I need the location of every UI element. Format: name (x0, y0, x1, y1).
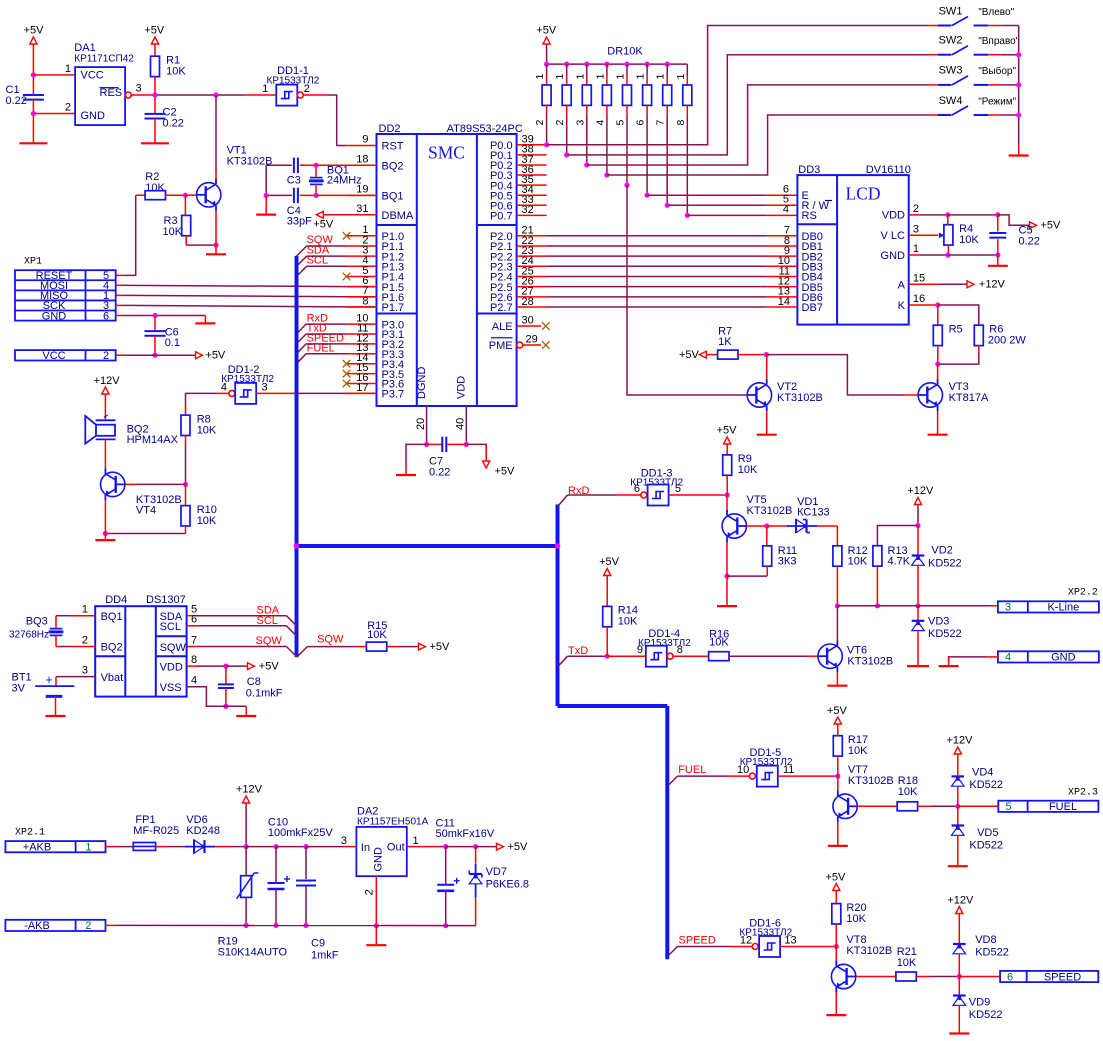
node C5 bottom (995, 252, 1000, 257)
svg-text:2: 2 (65, 102, 71, 114)
svg-text:K: K (898, 300, 906, 312)
svg-text:FUEL: FUEL (1049, 801, 1077, 813)
svg-text:+5V: +5V (679, 349, 700, 361)
wire DA1 pin 2 (33, 113, 75, 115)
svg-text:KD522: KD522 (969, 1009, 1003, 1021)
node R13 bottom (875, 603, 880, 608)
svg-text:+5V: +5V (24, 25, 45, 37)
svg-text:+12V: +12V (947, 735, 974, 747)
resistor R20 (832, 904, 841, 924)
wire top rail 1 (246, 846, 276, 848)
svg-text:P6KE6.8: P6KE6.8 (486, 878, 529, 890)
svg-text:11: 11 (783, 764, 794, 776)
svg-text:КР1157ЕН501А: КР1157ЕН501А (357, 817, 429, 828)
svg-text:1: 1 (413, 835, 419, 847)
node R19 top (244, 844, 249, 849)
resistor R17 (833, 736, 842, 756)
pin 37 P0.2 (517, 164, 547, 166)
svg-text:DS1307: DS1307 (146, 594, 186, 606)
svg-text:32768Hz: 32768Hz (9, 630, 49, 641)
wire to connector (958, 805, 999, 807)
svg-text:10K: 10K (738, 464, 758, 476)
svg-text:3: 3 (913, 224, 919, 236)
wire SPEED from bus (669, 947, 678, 956)
node VT5/R11/VD1 (764, 523, 769, 528)
svg-text:29: 29 (526, 333, 538, 345)
svg-text:VCC: VCC (42, 350, 65, 362)
svg-text:3: 3 (1005, 602, 1011, 614)
resistor DR10K element 5 (624, 62, 629, 67)
svg-text:SQW: SQW (256, 635, 283, 647)
wire DA2 gnd (375, 926, 377, 946)
svg-text:1: 1 (85, 842, 91, 854)
pin 40 VDD (465, 406, 467, 444)
node VT5 emitter/R11 (724, 574, 729, 579)
svg-text:10K: 10K (959, 234, 979, 246)
wire R16 to VT6 base (729, 655, 808, 657)
svg-text:RS: RS (802, 210, 817, 222)
svg-text:+5V: +5V (599, 556, 620, 568)
svg-text:КР1171СП42: КР1171СП42 (74, 54, 134, 65)
svg-text:+5V: +5V (717, 425, 738, 437)
svg-text:200 2W: 200 2W (988, 334, 1027, 346)
svg-text:1: 1 (913, 243, 919, 255)
svg-text:4: 4 (1005, 652, 1011, 664)
svg-text:+5V: +5V (430, 641, 451, 653)
svg-text:VCC: VCC (81, 69, 104, 81)
ground (VT7) (828, 845, 848, 847)
svg-text:GND: GND (42, 310, 67, 322)
svg-text:BQ1: BQ1 (101, 611, 123, 623)
pin 1 GND (909, 254, 920, 256)
svg-text:RES: RES (100, 87, 123, 99)
svg-text:4: 4 (221, 382, 227, 394)
wire VT5 collector (726, 495, 728, 512)
wire C7 to ground (406, 444, 427, 466)
svg-text:+5V: +5V (1041, 220, 1062, 232)
svg-text:+5V: +5V (495, 466, 516, 478)
svg-text:20: 20 (415, 418, 427, 430)
pin 18 BQ2 (347, 164, 377, 166)
pin 9 DB2 wire (547, 255, 767, 257)
svg-text:SPEED: SPEED (1044, 971, 1081, 983)
svg-text:8: 8 (677, 644, 683, 656)
ground (VT1) (206, 253, 226, 255)
svg-text:4.7K: 4.7K (888, 556, 911, 568)
wire DR4 to P0.3 (606, 115, 608, 175)
wire DD1-5 out (778, 775, 838, 777)
svg-text:K-Line: K-Line (1047, 602, 1079, 614)
wire FUEL from bus (669, 776, 678, 785)
wire DR7 to P0.6 (666, 115, 668, 206)
svg-text:1mkF: 1mkF (311, 950, 339, 962)
wire C1 to ground (32, 114, 34, 144)
no-connect P1.0 (343, 232, 351, 240)
svg-text:7: 7 (655, 120, 667, 126)
svg-text:0.1mkF: 0.1mkF (246, 688, 283, 700)
svg-text:SW1: SW1 (939, 5, 963, 17)
svg-text:10K: 10K (367, 629, 387, 641)
node BQ1 top (313, 163, 318, 168)
node C11 bottom (443, 923, 448, 928)
wire VT2 emitter (766, 411, 768, 435)
svg-text:SQW: SQW (317, 633, 344, 645)
wire to R16 (673, 655, 709, 657)
resistor DR10K element 1 (544, 62, 549, 67)
svg-text:2: 2 (82, 634, 88, 646)
svg-text:KT817A: KT817A (949, 392, 989, 404)
ground (C8) (236, 715, 256, 717)
svg-text:1: 1 (65, 63, 71, 75)
wire SCL tap (307, 265, 347, 267)
node C9 top (303, 844, 308, 849)
svg-text:12: 12 (740, 934, 752, 946)
svg-text:GND: GND (881, 250, 906, 262)
svg-text:1: 1 (262, 83, 268, 95)
svg-text:33pF: 33pF (287, 216, 312, 228)
svg-text:10K: 10K (898, 786, 918, 798)
node SW2 rail (1016, 52, 1021, 57)
svg-text:DR10K: DR10K (607, 45, 643, 57)
ground (VT8) (826, 1014, 846, 1016)
pin 7 P1.6 (347, 296, 377, 298)
svg-text:SW3: SW3 (939, 65, 963, 77)
node R17/VT7 base (835, 774, 840, 779)
svg-text:0.22: 0.22 (163, 117, 184, 129)
pin 31 DEMA (347, 214, 377, 216)
svg-text:0.22: 0.22 (6, 95, 27, 107)
pin 30 ALE (517, 325, 541, 327)
wire DR5 to P0.4 (626, 115, 628, 186)
ground (DA2) (366, 944, 386, 946)
power +5V (DEMA) (316, 211, 323, 218)
svg-text:9: 9 (362, 134, 368, 146)
resistor DR10K element 3 (584, 62, 589, 67)
wire R11 bottom (727, 575, 767, 577)
wire P0.2 row to SW3 (587, 85, 929, 165)
wire VT8 base lead (856, 976, 896, 978)
svg-text:6: 6 (103, 310, 109, 322)
resistor R8 (181, 415, 190, 435)
connector XP2.3 FUEL (998, 801, 1098, 812)
wire VT8 emitter (835, 993, 837, 1016)
node C6 bottom (152, 353, 157, 358)
node VT1 emitter (213, 243, 218, 248)
pin 34 P0.5 (517, 194, 547, 196)
svg-text:10K: 10K (197, 515, 217, 527)
wire P0.3 row to SW4 (607, 115, 929, 175)
ground (VT6) (827, 685, 847, 687)
svg-text:1: 1 (554, 74, 566, 80)
svg-text:4: 4 (191, 674, 197, 686)
svg-text:SW2: SW2 (939, 35, 963, 47)
node VT4 emitter (103, 531, 108, 536)
svg-text:HPM14AX: HPM14AX (127, 434, 179, 446)
svg-text:10: 10 (737, 764, 749, 776)
wire SCK to P1.7 (116, 304, 124, 306)
wire SQW tap (307, 245, 347, 247)
svg-text:28: 28 (522, 296, 534, 308)
svg-text:3: 3 (341, 835, 347, 847)
wire K-line row (837, 605, 877, 607)
svg-text:10K: 10K (618, 616, 638, 628)
svg-text:GND: GND (81, 110, 106, 122)
svg-text:In: In (361, 842, 370, 854)
pin 4 bubble DD1-2 (229, 390, 235, 396)
node R20/VT8 base (834, 944, 839, 949)
wire R1 to node (154, 77, 156, 95)
svg-text:2: 2 (913, 203, 919, 215)
node +12V/R13/VD2 (915, 523, 920, 528)
svg-text:DD3: DD3 (798, 164, 820, 176)
pin 26 P2.5 (517, 286, 547, 288)
svg-text:+: + (45, 673, 52, 687)
wire VT8 collector (835, 947, 837, 962)
wire node to DD1-1 input (155, 94, 246, 96)
svg-text:КС133: КС133 (797, 506, 830, 518)
wire VDD to +5V (466, 444, 486, 457)
svg-text:"Выбор": "Выбор" (978, 65, 1016, 77)
svg-text:1: 1 (534, 74, 546, 80)
node R14 bottom (605, 654, 610, 659)
pin 10 P3.0 (347, 323, 377, 325)
wire P0.1 row to SW2 (567, 55, 929, 155)
connector XP2.3 SPEED (1000, 971, 1098, 982)
resistor R9 (723, 455, 732, 475)
bus horizontal 1 (297, 544, 558, 548)
svg-text:0.22: 0.22 (429, 466, 450, 478)
svg-text:XP2.2: XP2.2 (1068, 587, 1098, 598)
pin 39 P0.0 (517, 144, 547, 146)
svg-text:2: 2 (364, 889, 376, 895)
svg-text:S10K14AUTO: S10K14AUTO (218, 946, 288, 958)
svg-text:50mkFx16V: 50mkFx16V (436, 828, 495, 840)
svg-text:VDD: VDD (160, 661, 183, 673)
resistor R14 (603, 606, 612, 626)
wire DD1-1 out to RST (303, 94, 328, 96)
svg-text:"Влево": "Влево" (978, 7, 1014, 18)
wire VT6 collector (836, 606, 838, 640)
svg-text:40: 40 (455, 418, 467, 430)
svg-text:VDD: VDD (882, 210, 905, 222)
connector XP2.1 -AKB (5, 920, 105, 931)
pin 25 P2.4 (517, 275, 547, 277)
svg-text:KD248: KD248 (186, 825, 220, 837)
svg-text:VT4: VT4 (136, 504, 156, 516)
wire VDD rail (948, 214, 998, 216)
svg-text:1: 1 (675, 74, 687, 80)
wire TxD tap (306, 333, 347, 335)
svg-text:32: 32 (522, 204, 534, 216)
ground (C1) (19, 142, 47, 144)
svg-text:C8: C8 (247, 676, 261, 688)
wire GND pin (987, 656, 998, 658)
wire pin19 (316, 194, 377, 196)
wire SDA tap (307, 255, 347, 257)
ground (VT2) (757, 434, 777, 436)
svg-text:10K: 10K (163, 226, 183, 238)
pin 11 P3.1 (347, 333, 377, 335)
wire SPEED tap (306, 343, 347, 345)
svg-text:6: 6 (191, 614, 197, 626)
pin 27 P2.6 (517, 296, 547, 298)
node C11 top (443, 844, 448, 849)
svg-text:+12V: +12V (236, 783, 263, 795)
svg-text:10K: 10K (848, 745, 868, 757)
node bus corner 1 (294, 543, 300, 549)
resistor DR10K element 4 (604, 62, 609, 67)
svg-text:10K: 10K (166, 66, 186, 78)
svg-text:6: 6 (634, 483, 640, 495)
wire DR8 to P0.7 (686, 115, 688, 216)
node DA2 gnd (374, 923, 379, 928)
wire R8 to node (185, 436, 187, 446)
wire SQW diag to bus (286, 647, 296, 657)
node VD7 top (473, 844, 478, 849)
svg-text:P2.7: P2.7 (490, 302, 513, 314)
resistor R13 (873, 546, 882, 566)
wire to +5V (998, 215, 1029, 225)
wire FUEL tap (306, 353, 347, 355)
wire top rail 2 (276, 846, 306, 848)
svg-text:BQ2: BQ2 (382, 160, 404, 172)
svg-text:100mkFx25V: 100mkFx25V (268, 827, 333, 839)
ground (VD3) (907, 665, 929, 667)
svg-text:VD4: VD4 (972, 766, 993, 778)
node R8/R10/VT4 base (183, 482, 188, 487)
wire emitter (726, 542, 728, 576)
node pin1 DA1 (31, 72, 36, 77)
wire VT7 collector (837, 776, 839, 791)
svg-text:VD2: VD2 (931, 545, 952, 557)
wire VD1 to R12 (836, 526, 838, 546)
connector XP1 VCC row (15, 350, 116, 360)
svg-text:DV16110: DV16110 (866, 164, 911, 176)
wire SDA diag to bus (286, 616, 296, 626)
wire VDD to +5V (226, 665, 247, 667)
pin 10 DB3 wire (547, 265, 767, 267)
svg-text:BQ3: BQ3 (26, 615, 48, 627)
svg-text:KT3102B: KT3102B (777, 392, 823, 404)
pin 5 P1.4 (347, 275, 377, 277)
svg-text:+5V: +5V (144, 25, 165, 37)
no-connect P3.6 (343, 380, 351, 388)
svg-text:6: 6 (635, 120, 647, 126)
node C6 top (152, 313, 157, 318)
ground (VT5) (717, 605, 737, 607)
svg-text:A: A (898, 279, 906, 291)
svg-text:+5V: +5V (508, 841, 529, 853)
node C8 top (223, 664, 228, 669)
svg-text:"Вправо": "Вправо" (978, 36, 1020, 47)
wire K to R6 (938, 305, 979, 325)
svg-text:+12V: +12V (947, 894, 974, 906)
ground (C7) (396, 474, 416, 476)
svg-text:SQW: SQW (160, 642, 187, 654)
svg-text:SW4: SW4 (939, 95, 963, 107)
svg-text:10K: 10K (197, 424, 217, 436)
node C10 top (273, 844, 278, 849)
svg-text:3: 3 (82, 664, 88, 676)
pin 29 PME bubble (517, 342, 523, 348)
wire VT6 emitter (836, 672, 838, 686)
resistor DR10K element 7 (665, 62, 670, 67)
svg-text:C3: C3 (287, 175, 301, 187)
svg-text:0.22: 0.22 (1019, 236, 1040, 248)
svg-text:10K: 10K (846, 913, 866, 925)
svg-text:4: 4 (594, 120, 606, 126)
svg-text:DA2: DA2 (357, 805, 378, 817)
wire R21 to node (916, 976, 930, 978)
wire VT7 emitter (837, 822, 839, 846)
pin 8 P1.7 (347, 306, 377, 308)
svg-text:GND: GND (373, 847, 385, 872)
ground (switches) (1009, 154, 1029, 156)
svg-text:GND: GND (1051, 652, 1076, 664)
wire rail to ground (1018, 145, 1020, 155)
svg-text:+5V: +5V (205, 350, 226, 362)
svg-text:2: 2 (554, 120, 566, 126)
svg-text:KT3102B: KT3102B (847, 655, 893, 667)
svg-text:10K: 10K (897, 957, 917, 969)
wire +AKB to FP1 (106, 846, 118, 848)
node C4 left (264, 193, 269, 198)
ground (C5) (988, 265, 1008, 267)
svg-text:2: 2 (103, 350, 109, 362)
pin 1 P1.0 (347, 235, 377, 237)
resistor DR10K element 8 (686, 64, 688, 76)
pin 2 VDD (909, 214, 920, 216)
svg-text:BQ2: BQ2 (101, 642, 123, 654)
svg-text:P1.7: P1.7 (382, 302, 405, 314)
node VD4/VD5/FUEL (955, 804, 960, 809)
pin 12 P3.2 (347, 343, 377, 345)
wire DD1-2 out to P3.7 (256, 392, 294, 394)
bus vertical 1 (295, 256, 299, 657)
pin 15 A (909, 283, 939, 285)
svg-text:DGND: DGND (416, 367, 428, 399)
pin 2 bubble DD1-1 (297, 92, 303, 98)
wire SCL diag to bus (286, 626, 296, 636)
pin 28 P2.7 (517, 306, 547, 308)
node VD2/VD3 (915, 603, 920, 608)
svg-text:KD522: KD522 (969, 779, 1003, 791)
wire R10 to emitter (105, 533, 185, 535)
wire VT3 collector (937, 364, 939, 379)
wire TxD from bus (559, 656, 568, 666)
svg-text:13: 13 (784, 934, 796, 946)
node K-line/R12/VT6 collector (835, 603, 840, 608)
svg-text:DD4: DD4 (105, 594, 127, 606)
svg-text:C9: C9 (311, 938, 325, 950)
svg-text:+12V: +12V (94, 375, 121, 387)
wire to VT3 base (766, 355, 904, 395)
svg-text:1: 1 (655, 74, 667, 80)
svg-text:KT3102B: KT3102B (846, 945, 892, 957)
wire VT1 collector (215, 95, 217, 173)
node K (935, 302, 940, 307)
resistor R4 trimmer (944, 225, 953, 245)
resistor DR10K element 6 (645, 62, 650, 67)
svg-text:P0.7: P0.7 (490, 211, 513, 223)
pin 16 P3.6 (347, 383, 377, 385)
svg-text:2: 2 (85, 920, 91, 932)
svg-text:+5V: +5V (536, 25, 557, 37)
wire RxD tap (306, 323, 347, 325)
svg-text:3: 3 (136, 83, 142, 95)
svg-text:10K: 10K (709, 636, 729, 648)
wire GND row (116, 315, 124, 317)
